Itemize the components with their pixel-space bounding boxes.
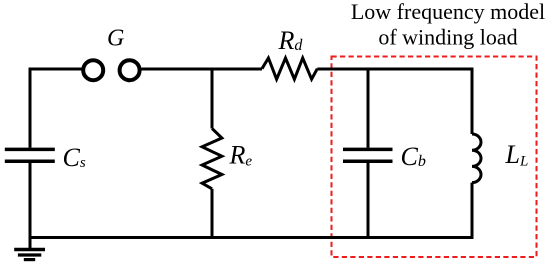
spark gap G electrode circle 2 xyxy=(120,60,140,80)
svg-text:Low frequency model: Low frequency model xyxy=(351,0,545,24)
wire: Re branch vertical lower xyxy=(211,189,214,238)
svg-text:Rd: Rd xyxy=(278,26,304,55)
svg-text:of winding load: of winding load xyxy=(378,24,517,49)
wire: from Rd to top-right corner xyxy=(317,68,473,71)
wire: right rail lower segment from inductor to bottom rail xyxy=(471,183,474,239)
red dashed box: low frequency model of winding load xyxy=(332,57,537,258)
wire: right rail upper segment down to inductor xyxy=(471,68,474,135)
wire: Re branch vertical upper xyxy=(211,69,214,128)
svg-text:LL: LL xyxy=(505,140,529,170)
wire: Cb branch vertical lower xyxy=(367,163,370,238)
spark gap G electrode circle 1 xyxy=(83,60,103,80)
capacitor Cs bottom plate xyxy=(5,160,55,164)
capacitor Cb top plate xyxy=(343,148,393,152)
capacitor Cs top plate xyxy=(5,148,55,152)
svg-text:Cb: Cb xyxy=(401,142,426,171)
wire: left rail lower segment from Cs to bottom rail xyxy=(29,163,32,238)
svg-text:Re: Re xyxy=(229,141,253,170)
wire: left rail upper segment from top wire to Cs xyxy=(29,68,32,148)
ground symbol xyxy=(14,248,45,251)
wire: Cb branch vertical upper xyxy=(367,69,370,148)
svg-text:G: G xyxy=(107,26,124,52)
wire: from spark gap to resistor Rd xyxy=(142,68,263,71)
resistor Re zigzag xyxy=(202,128,222,188)
capacitor Cb bottom plate xyxy=(343,160,393,164)
wire: bottom rail xyxy=(29,236,473,239)
svg-text:Cs: Cs xyxy=(63,143,86,172)
inductor LL coil (3 arcs) xyxy=(472,134,481,183)
resistor Rd zigzag xyxy=(262,58,317,79)
wire: top-left horizontal from left rail to spark gap xyxy=(30,68,83,71)
wire: ground stem xyxy=(29,238,32,250)
